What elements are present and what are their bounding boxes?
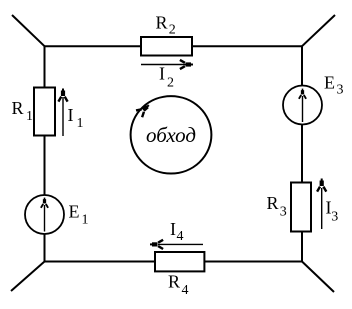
svg-text:4: 4 [177, 229, 184, 244]
label R4 [168, 272, 189, 298]
wire right (node B to node C) [301, 46, 303, 261]
svg-text:3: 3 [280, 205, 287, 220]
label E1 [69, 202, 89, 228]
svg-text:R: R [156, 13, 168, 33]
source E3 [283, 86, 322, 125]
wire branch bottom-right corner [302, 262, 334, 293]
label R3 [267, 193, 287, 220]
label I1 [68, 105, 84, 131]
wire branch top-right corner [302, 15, 335, 46]
label I4 [170, 219, 184, 244]
wire bottom (node C to node D) [45, 261, 303, 263]
svg-text:E: E [69, 202, 80, 222]
svg-text:R: R [168, 272, 180, 292]
svg-text:обход: обход [146, 123, 196, 147]
wire branch bottom-left corner [11, 262, 45, 292]
label E3 [324, 73, 344, 98]
svg-text:1: 1 [26, 109, 33, 124]
label R1 [12, 98, 34, 124]
svg-text:1: 1 [77, 116, 84, 131]
svg-text:3: 3 [337, 83, 344, 98]
svg-text:I: I [159, 64, 165, 84]
resistor R1 [34, 88, 55, 136]
current arrow I4 [150, 240, 203, 249]
resistor R3 [291, 183, 311, 232]
svg-text:2: 2 [169, 22, 176, 37]
resistor R2 [141, 37, 192, 56]
svg-text:R: R [267, 193, 279, 213]
svg-text:I: I [170, 219, 176, 239]
resistor R4 [155, 252, 204, 271]
wire top (node A to node B) [45, 45, 303, 47]
svg-text:2: 2 [167, 76, 174, 91]
label I2 [159, 64, 174, 91]
svg-text:3: 3 [331, 210, 338, 225]
label I3 [326, 198, 339, 225]
current arrow I3 [317, 179, 326, 230]
source E1 [25, 195, 64, 234]
current arrow I2 [141, 60, 193, 69]
svg-text:E: E [324, 73, 335, 93]
label R2 [156, 13, 176, 38]
current arrow I1 [58, 89, 67, 137]
svg-text:1: 1 [82, 213, 89, 228]
svg-text:I: I [68, 105, 74, 125]
svg-text:4: 4 [182, 283, 189, 298]
loop traversal circle (обход) [131, 96, 212, 173]
wire left (node D to node A) [44, 46, 46, 261]
wire branch top-left corner [12, 15, 45, 46]
svg-text:R: R [12, 98, 24, 118]
